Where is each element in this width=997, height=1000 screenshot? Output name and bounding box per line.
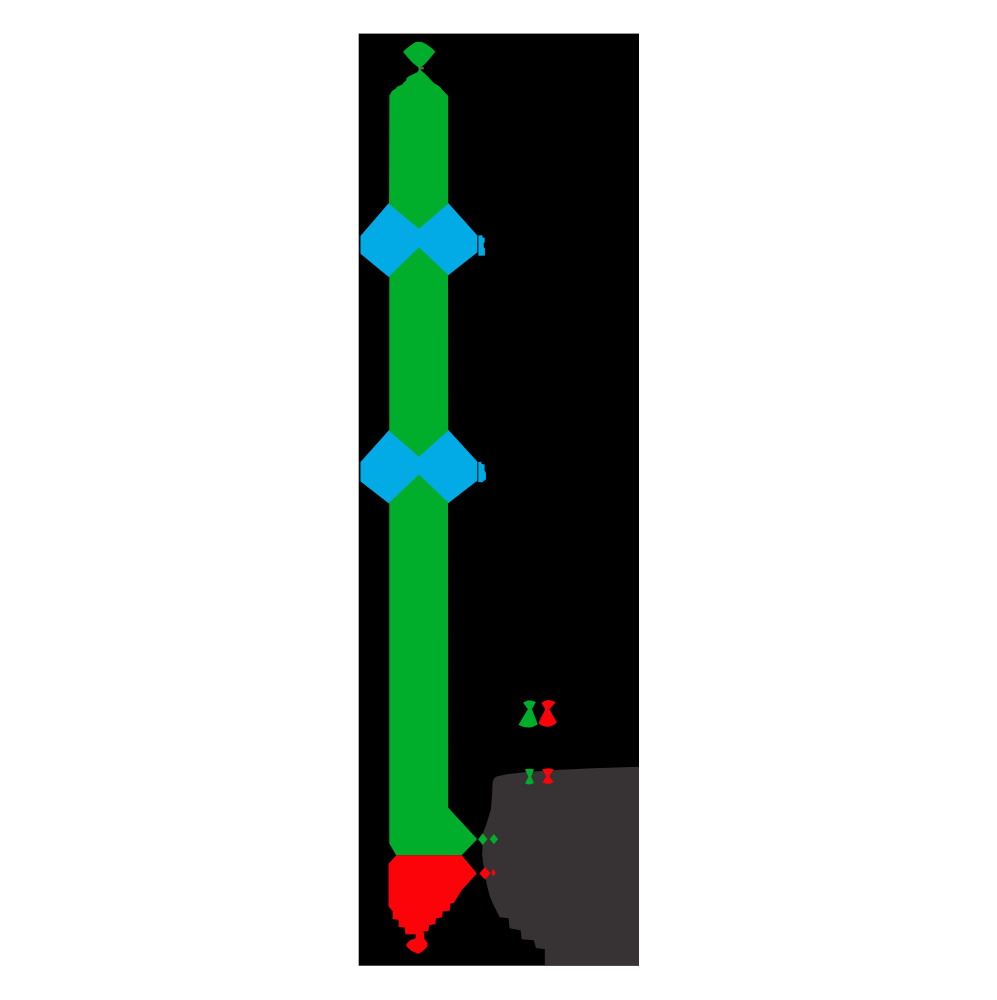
small green bowtie B bottom fan	[525, 777, 534, 784]
small green diamond 2 at green tip	[490, 834, 498, 844]
green flow segment between D1 and D2	[389, 247, 448, 457]
small red bowtie A top fan	[541, 700, 555, 709]
small green bowtie A bottom fan	[519, 709, 538, 727]
blue side tick of D1	[478, 235, 485, 256]
small red bowtie A bottom fan	[538, 709, 557, 727]
blue event diamond D1	[361, 204, 476, 277]
green main flow: top ornament + upper column + D1 upper wedge	[389, 42, 448, 229]
red flow blob at bottom	[389, 855, 477, 954]
green flow segment below D2 down to bottom tip	[389, 475, 477, 856]
blue event diamond D2	[361, 431, 476, 503]
blue side tick of D2	[478, 462, 486, 483]
gray tick at top ornament waist	[420, 67, 424, 70]
small red bowtie B bottom fan	[543, 776, 554, 784]
small green bowtie B (on gray surface) top fan	[525, 769, 534, 777]
small green bowtie A top fan	[523, 700, 536, 709]
small red diamond 2 at red tip	[491, 869, 495, 877]
small red diamond 1 at red tip	[479, 867, 490, 880]
gray clone blob (bottom right, clipped by panel)	[482, 767, 639, 966]
plot background panel	[359, 34, 639, 966]
small green diamond 1 at green tip	[478, 833, 487, 845]
small red bowtie B top fan	[542, 768, 553, 776]
